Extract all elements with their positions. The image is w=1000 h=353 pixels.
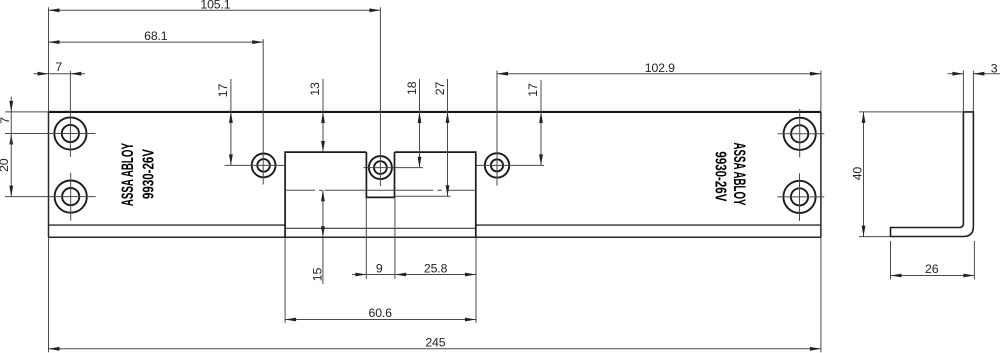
dimension 7 vertical left [0, 97, 49, 145]
side view L-profile [891, 112, 974, 237]
svg-text:60.6: 60.6 [369, 306, 393, 320]
dimension 15 [310, 190, 325, 284]
dimension 102.9 [497, 61, 821, 76]
small hole right [476, 71, 544, 186]
mounting hole H4 bottom-right [777, 173, 824, 221]
flange fold line [49, 224, 821, 226]
dimension 3 side view [948, 61, 1000, 111]
latch opening left [285, 152, 366, 237]
mounting hole H1 top-left [5, 71, 96, 157]
svg-text:245: 245 [425, 336, 445, 350]
svg-text:17: 17 [526, 83, 540, 97]
dimension 105.1 [49, 0, 381, 12]
latch hole center [364, 7, 424, 186]
svg-text:7: 7 [0, 117, 12, 124]
svg-text:9: 9 [376, 261, 383, 275]
dimension 9 [352, 197, 395, 278]
svg-text:68.1: 68.1 [144, 29, 168, 43]
dimension 17 right [526, 80, 543, 165]
svg-text:9930-26V: 9930-26V [138, 148, 156, 199]
svg-text:17: 17 [216, 84, 230, 98]
latch tab [366, 152, 394, 197]
dimension 7 horizontal [34, 60, 86, 76]
svg-text:20: 20 [0, 158, 11, 172]
dimension 40 side view [850, 112, 963, 237]
extension line plate left edge bottom [48, 237, 50, 352]
dimension 68.1 [49, 29, 264, 44]
svg-text:26: 26 [925, 262, 939, 276]
mounting hole H3 top-right [778, 109, 825, 158]
tab fold line (seen through openings) [285, 189, 476, 191]
dimension 25.8 [395, 237, 476, 322]
svg-text:9930-26V: 9930-26V [712, 151, 730, 202]
svg-text:ASSA ABLOY: ASSA ABLOY [731, 142, 749, 205]
mounting hole H2 bottom-left [5, 173, 96, 221]
plate outline front view [49, 112, 821, 237]
dimension 245 [49, 336, 821, 351]
dimension 60.6 [285, 237, 476, 322]
svg-text:40: 40 [850, 167, 864, 181]
extension line plate left edge top [48, 7, 50, 112]
svg-text:15: 15 [310, 268, 324, 282]
svg-text:102.9: 102.9 [645, 61, 675, 75]
latch opening right [395, 152, 476, 237]
svg-text:3: 3 [991, 61, 998, 75]
svg-text:105.1: 105.1 [200, 0, 230, 11]
dimension 13 [308, 79, 325, 152]
flange edge seen through opening [285, 227, 476, 229]
dimension 18 [405, 79, 421, 168]
svg-text:25.8: 25.8 [424, 261, 448, 275]
extension line plate right edge bottom [820, 237, 822, 352]
svg-text:7: 7 [55, 60, 62, 74]
dimension 17 left [216, 79, 233, 165]
svg-text:ASSA ABLOY: ASSA ABLOY [118, 143, 136, 206]
svg-text:18: 18 [405, 81, 419, 95]
small hole left [225, 39, 286, 184]
dimension 26 side view [891, 241, 975, 279]
extension line plate right edge top [820, 71, 822, 112]
svg-text:13: 13 [308, 82, 322, 96]
dimension 27 [395, 79, 451, 196]
svg-text:27: 27 [433, 82, 447, 96]
dimension 20 vertical left [0, 134, 13, 197]
